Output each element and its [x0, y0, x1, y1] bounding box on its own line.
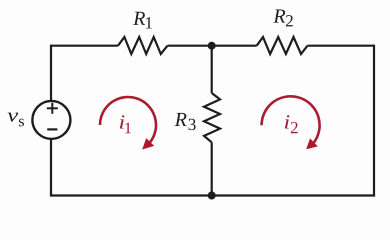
mesh current i2 arc — [262, 96, 320, 142]
label vs — [8, 113, 24, 127]
wire middle vertical lower — [211, 142, 213, 195]
mesh current i2 arrowhead — [306, 138, 318, 149]
resistor R1 — [118, 37, 168, 54]
label i2 — [285, 115, 298, 133]
node junction bottom — [208, 192, 216, 200]
label R2 — [273, 10, 292, 27]
voltage source minus sign — [47, 128, 57, 130]
wire left vertical lower — [50, 139, 52, 196]
mesh current i1 arc — [100, 97, 156, 142]
wire top-middle segment — [168, 45, 257, 47]
wire left vertical upper — [50, 45, 52, 102]
wire top-left segment — [51, 45, 118, 47]
resistor R3 — [204, 93, 220, 142]
mesh current i1 arrowhead — [142, 138, 154, 149]
wire middle vertical upper — [211, 46, 213, 93]
node junction top — [208, 42, 216, 50]
voltage source vs — [32, 101, 70, 139]
wire right vertical — [373, 45, 375, 196]
label R3 — [175, 113, 196, 130]
label i1 — [120, 115, 131, 133]
resistor R2 — [257, 37, 308, 54]
wire top-right segment — [308, 45, 375, 47]
label R1 — [133, 12, 152, 29]
wire bottom — [50, 194, 375, 196]
voltage source plus sign — [47, 103, 58, 114]
